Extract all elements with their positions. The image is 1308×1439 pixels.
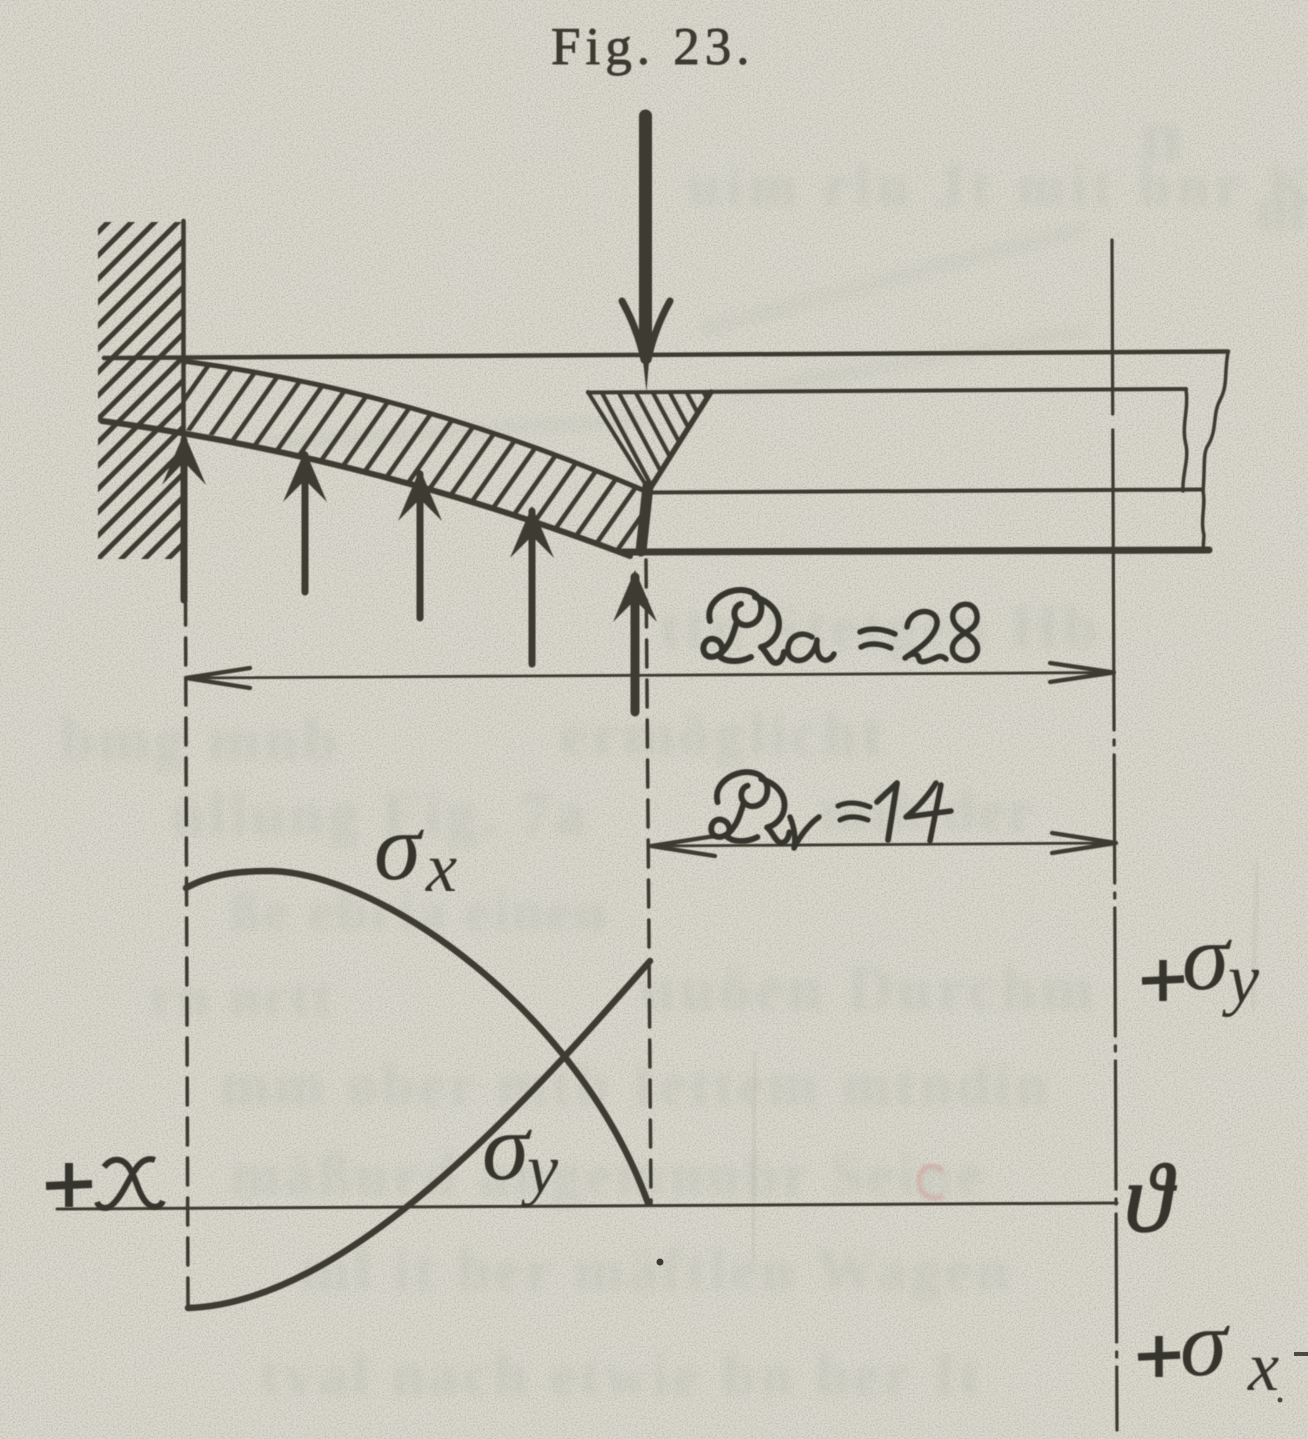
svg-text:x: x: [425, 830, 457, 907]
label Ra : equals: [860, 629, 895, 648]
svg-text:mäßurd angemnnbr Seine: mäßurd angemnnbr Seine: [230, 1142, 987, 1208]
wall line: [181, 221, 186, 600]
svg-text:σ: σ: [1180, 1290, 1230, 1396]
svg-text:σ: σ: [1182, 904, 1232, 1010]
label Ri : subscript nu: [790, 817, 819, 848]
arrow q2: [283, 450, 327, 592]
arrow q1: [162, 433, 206, 600]
label Ri : equals: [838, 803, 870, 820]
label Ra : digit 2: [905, 612, 946, 662]
faint crease lines: [752, 1052, 756, 1262]
label Ri : script R: [711, 772, 789, 843]
junction column: [641, 486, 648, 551]
ink specks: [657, 1259, 664, 1266]
svg-text:y: y: [521, 1131, 559, 1208]
labels: [703, 590, 977, 848]
dimension Ra line: [190, 673, 1110, 679]
dimension Ri line: [653, 843, 1112, 846]
svg-text:Fig. 23.: Fig. 23.: [551, 18, 754, 76]
label +x : script x: [97, 1159, 163, 1208]
faint diagonal streaks (bleed of figure on reverse): [248, 228, 1090, 445]
svg-text:x: x: [1247, 1329, 1279, 1406]
Ri right arrowhead: [1052, 833, 1116, 853]
rim top line: [588, 389, 1186, 393]
label Ri : digit 1: [877, 783, 897, 840]
Ri left arrowhead: [651, 836, 715, 856]
svg-text:y: y: [1222, 941, 1260, 1018]
svg-text:ui: ui: [1255, 177, 1305, 243]
arrow q3: [398, 469, 442, 618]
Ra left arrowhead: [186, 668, 250, 688]
Ra right arrowhead: [1050, 663, 1114, 682]
break edge outer: [1203, 352, 1228, 491]
centerline left: [186, 598, 189, 1307]
sigma-y curve: [188, 961, 650, 1308]
beam (dished plate) hatched body: [95, 350, 665, 565]
svg-text:n: n: [1140, 95, 1181, 177]
svg-text:mm ober mtb Iettem mtndin: mm ober mtb Iettem mtndin: [220, 1052, 1052, 1118]
top surface line: [104, 352, 1228, 359]
svg-text:rn nrtt: rn nrtt: [150, 966, 334, 1028]
svg-text:ermöglicht: ermöglicht: [560, 701, 886, 769]
load arrow P: [639, 116, 652, 335]
label +x : plus: [46, 1163, 92, 1207]
arrow q4: [510, 506, 554, 664]
svg-text:ϑ: ϑ: [1124, 1145, 1177, 1253]
rim mid line: [650, 490, 1203, 493]
label +sigma-y : plus: [1142, 960, 1184, 1001]
sigma-x curve: [186, 871, 648, 1203]
label Ra : script R: [703, 590, 784, 663]
label Ra : subscript a: [788, 634, 834, 660]
break edge outer lower: [1203, 491, 1204, 551]
svg-text:σ: σ: [374, 794, 424, 900]
svg-text:mih der: mih der: [820, 778, 1036, 843]
svg-text:tval nach etwie bn ber It: tval nach etwie bn ber It: [260, 1342, 984, 1408]
svg-text:ml it ber mäftlen Wagen: ml it ber mäftlen Wagen: [300, 1237, 1013, 1303]
abscissa axis: [57, 1203, 1117, 1209]
arrow q5: [613, 570, 657, 712]
svg-text:σ: σ: [482, 1094, 532, 1200]
rim bottom thick line: [623, 550, 1209, 552]
triangle right edge: [646, 392, 711, 495]
label Ri : digit 4: [906, 783, 951, 841]
centerline right: [1110, 240, 1114, 414]
triangle left edge: [588, 392, 649, 490]
svg-text:bmg mnb: bmg mnb: [60, 706, 341, 774]
faint pink smudge: [919, 1166, 943, 1198]
svg-text:uuöen Durchm: uuöen Durchm: [640, 953, 1098, 1024]
label +sigma-x : plus: [1138, 1336, 1180, 1377]
beam top curve: [183, 361, 645, 491]
centerline middle: [646, 560, 651, 1203]
break edge inner: [1183, 389, 1187, 491]
beam bottom curve: [102, 421, 630, 556]
wall hatch: [98, 222, 184, 559]
svg-text:uim rlu Jt mit bnr Ktt: uim rlu Jt mit bnr Ktt: [688, 153, 1308, 218]
label Ra : digit 8: [952, 604, 977, 660]
rim: hatched triangle: [588, 392, 711, 490]
